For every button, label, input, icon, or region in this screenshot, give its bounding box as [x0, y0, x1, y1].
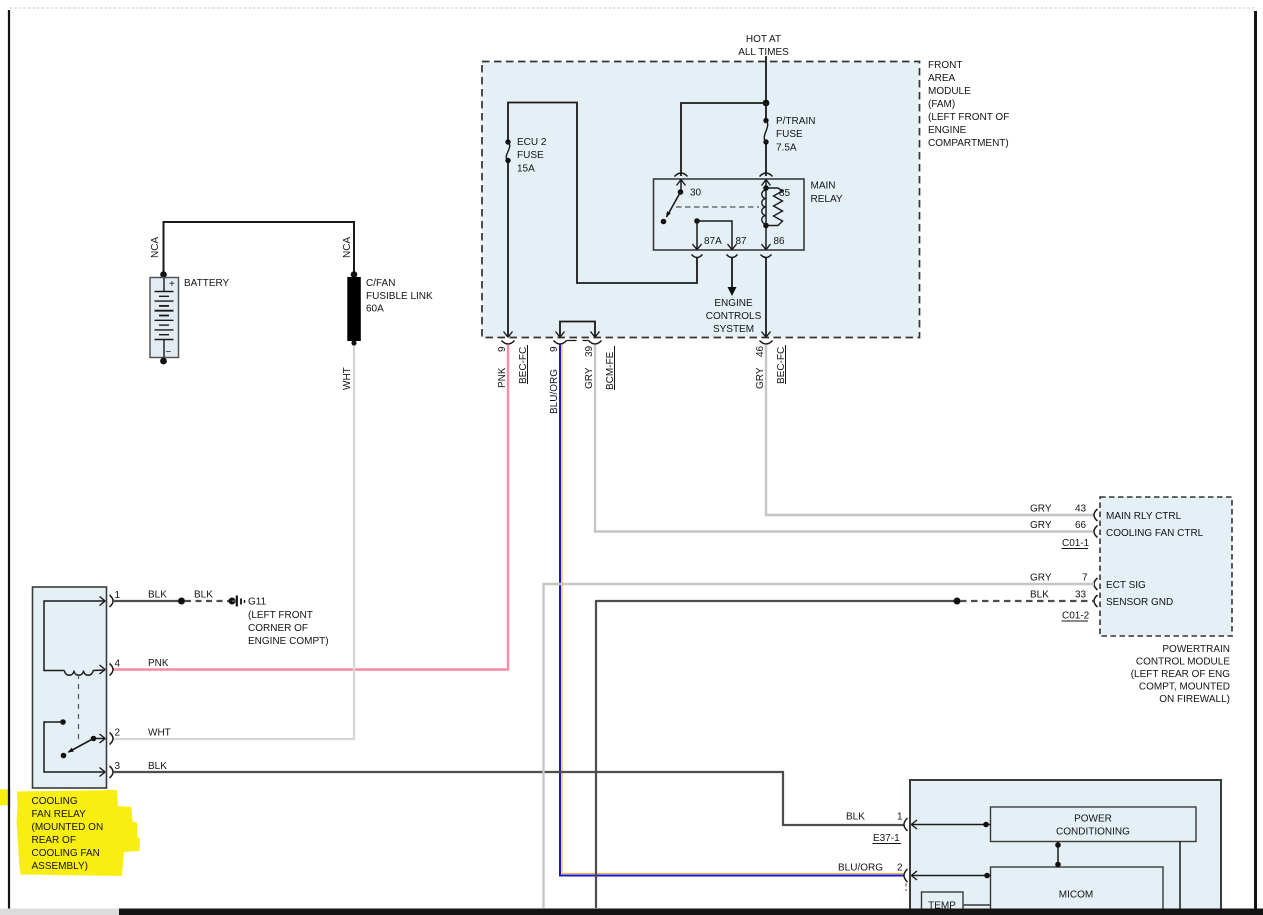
svg-text:7.5A: 7.5A [776, 143, 797, 154]
svg-text:GRY: GRY [1030, 573, 1052, 584]
wire branch to relay pin 30 [681, 103, 766, 176]
svg-text:SYSTEM: SYSTEM [713, 324, 754, 335]
svg-text:(MOUNTED ON: (MOUNTED ON [32, 822, 104, 833]
relay pin 4 connector arc [110, 664, 114, 676]
svg-text:HOT AT: HOT AT [746, 34, 781, 45]
fan module box [910, 780, 1221, 915]
svg-text:SENSOR GND: SENSOR GND [1106, 597, 1173, 608]
svg-text:FAN RELAY: FAN RELAY [32, 809, 87, 820]
svg-text:PNK: PNK [497, 367, 508, 388]
node 87A/87 common [694, 218, 700, 224]
wire WHT: fusible link to relay pin 2 [113, 346, 354, 740]
svg-text:4: 4 [115, 659, 121, 670]
svg-text:GRY: GRY [755, 367, 766, 389]
svg-text:FRONT: FRONT [928, 60, 962, 71]
svg-text:WHT: WHT [342, 367, 353, 390]
svg-text:30: 30 [690, 188, 702, 199]
svg-text:(FAM): (FAM) [928, 99, 955, 110]
fuse ECU 2 FUSE 15A [505, 137, 547, 175]
relay coil [65, 671, 94, 676]
svg-text:60A: 60A [366, 304, 384, 315]
PCM internal labels [1106, 511, 1204, 608]
switch arm [667, 192, 681, 217]
wire ECU2 fuse feed from relay 87A [508, 103, 697, 284]
connector arc pin 86 bottom [761, 255, 772, 258]
wire BLK relay pin3 to fan module pin 1 [113, 772, 904, 825]
wire hot feed into FAM [765, 56, 767, 103]
svg-text:CORNER OF: CORNER OF [248, 623, 308, 634]
svg-text:E37-1: E37-1 [873, 833, 900, 844]
svg-text:(LEFT FRONT OF: (LEFT FRONT OF [928, 112, 1009, 123]
svg-text:2: 2 [897, 863, 903, 874]
svg-text:BLU/ORG: BLU/ORG [838, 863, 883, 874]
pin 87A arrow down [693, 244, 702, 250]
svg-text:CONTROLS: CONTROLS [706, 311, 762, 322]
page top dotted rule [10, 7, 1256, 9]
svg-text:(LEFT REAR OF ENG: (LEFT REAR OF ENG [1131, 669, 1230, 680]
FAM pin 9 arrow (BLU) [556, 332, 565, 338]
pin 85 arrow up [762, 180, 771, 186]
svg-text:FUSE: FUSE [776, 129, 803, 140]
bottom left gray strip [0, 909, 119, 915]
wire labels at fan module [838, 812, 903, 874]
svg-text:GRY: GRY [1030, 520, 1052, 531]
svg-text:1: 1 [115, 590, 121, 601]
svg-text:15A: 15A [517, 164, 535, 175]
svg-text:CONDITIONING: CONDITIONING [1056, 827, 1130, 838]
wire pin 86 down to FAM pin 46 [765, 258, 767, 338]
pin 87 arrow down [728, 244, 737, 250]
connector names [1062, 538, 1090, 622]
relay pin arrows right [100, 597, 106, 606]
wire bridge to FAM pins 9/39 [560, 322, 595, 338]
MICOM box [991, 867, 1164, 915]
svg-text:85: 85 [779, 188, 791, 199]
node ENGINE CONTROLS SYSTEM [706, 298, 762, 335]
svg-text:COOLING FAN: COOLING FAN [32, 848, 100, 859]
svg-text:BLK: BLK [148, 590, 167, 601]
wire BLK SENSOR GND [596, 601, 955, 908]
svg-text:ENGINE COMPT): ENGINE COMPT) [248, 636, 329, 647]
FAM pin 39 arc [589, 341, 602, 345]
wire GRY: FAM pin 46 to PCM pin 43 [766, 345, 1094, 516]
wire pin 87 to engine controls [731, 258, 733, 291]
svg-text:MODULE: MODULE [928, 86, 971, 97]
relay pin2 contact [91, 736, 97, 742]
relay pin 1 connector arc [110, 595, 114, 607]
svg-text:WHT: WHT [148, 728, 171, 739]
connector arc pin 30 top [675, 173, 688, 177]
node HOT AT ALL TIMES [738, 34, 789, 58]
svg-text:ON FIREWALL): ON FIREWALL) [1159, 694, 1230, 705]
svg-text:FUSIBLE LINK: FUSIBLE LINK [366, 291, 433, 302]
POWER CONDITIONING box [991, 807, 1197, 842]
FAM pin 9b arc [554, 341, 567, 345]
svg-text:9: 9 [549, 346, 560, 352]
svg-text:87A: 87A [704, 236, 722, 247]
wire labels left relay [148, 590, 213, 773]
svg-text:BLK: BLK [194, 590, 213, 601]
svg-text:BLK: BLK [846, 812, 865, 823]
svg-text:P/TRAIN: P/TRAIN [776, 116, 815, 127]
wire PNK: FAM pin 9 to cooling fan relay pin 4 [113, 345, 508, 670]
svg-text:PNK: PNK [148, 658, 169, 669]
battery feed wire [164, 222, 355, 272]
svg-text:POWERTRAIN: POWERTRAIN [1162, 644, 1230, 655]
svg-text:POWER: POWER [1074, 814, 1112, 825]
svg-text:CONTROL MODULE: CONTROL MODULE [1136, 657, 1230, 668]
svg-text:C/FAN: C/FAN [366, 278, 395, 289]
wire GRY: FAM pin 39 to PCM pin 66 [595, 345, 1094, 532]
ground G11 [232, 600, 236, 602]
wire BLU/ORG: FAM pin 9 to fan module pin 2 [560, 345, 904, 876]
wire labels at PCM [1030, 504, 1088, 601]
yellow highlight [0, 789, 140, 876]
FAM pin 9 arrow (PNK) [504, 332, 513, 338]
svg-text:MAIN RLY CTRL: MAIN RLY CTRL [1106, 511, 1182, 522]
svg-text:G11: G11 [248, 597, 267, 608]
svg-text:ALL TIMES: ALL TIMES [738, 47, 789, 58]
connector arc pin 87A bottom [692, 255, 703, 258]
svg-text:RELAY: RELAY [811, 194, 843, 205]
svg-text:MAIN: MAIN [811, 181, 836, 192]
relay pin 2 connector arc [110, 733, 114, 745]
svg-text:−: − [166, 347, 172, 358]
svg-text:REAR OF: REAR OF [32, 835, 76, 846]
pin 86 arrow down [762, 244, 771, 250]
junction dot [763, 100, 770, 107]
wire ECU2 fuse to FAM pin 9 [507, 163, 509, 337]
relay switch arm [69, 739, 94, 753]
label pin 39 GRY rotated [584, 345, 616, 390]
svg-text:NCA: NCA [150, 237, 161, 258]
battery B1 [150, 271, 179, 364]
fan module pin 2 [912, 875, 991, 877]
svg-text:BATTERY: BATTERY [184, 278, 230, 289]
relay internal: pin1 wire [44, 601, 105, 671]
pin 30 arrow up [677, 180, 686, 186]
internal link POWER-MICOM [1057, 842, 1059, 868]
wire fuse to relay pin 85 [765, 144, 767, 176]
pin 30 stub and pivot dot [680, 180, 682, 190]
svg-text:ECU 2: ECU 2 [517, 137, 547, 148]
cooling fan relay label [32, 796, 104, 872]
svg-text:C01-2: C01-2 [1062, 611, 1090, 622]
svg-text:MICOM: MICOM [1059, 890, 1093, 901]
svg-text:ENGINE: ENGINE [714, 298, 753, 309]
relay actuation dashed link [78, 674, 80, 741]
resistor zigzag [766, 188, 783, 226]
switch contact dot [661, 219, 667, 225]
svg-text:87: 87 [736, 236, 748, 247]
svg-text:(LEFT FRONT: (LEFT FRONT [248, 610, 313, 621]
fuse P/TRAIN FUSE 7.5A [763, 116, 815, 154]
svg-text:7: 7 [1082, 573, 1088, 584]
svg-text:39: 39 [584, 345, 595, 357]
svg-text:GRY: GRY [584, 367, 595, 389]
label pin 9 PNK rotated [497, 345, 529, 388]
label pin 9 BLU/ORG rotated [549, 346, 560, 414]
connector arc pin 85 top [760, 173, 773, 177]
wire TEMP to MICOM [963, 904, 991, 906]
internal line right [1179, 842, 1181, 911]
svg-text:COOLING FAN CTRL: COOLING FAN CTRL [1106, 528, 1204, 539]
relay contact upper [60, 719, 66, 725]
wire BLK relay pin1 to ground [113, 600, 180, 602]
svg-text:BLU/ORG: BLU/ORG [549, 369, 560, 414]
FAM pin 39 arrow [591, 332, 600, 338]
svg-text:86: 86 [774, 236, 786, 247]
svg-text:+: + [169, 279, 175, 290]
connector dash stub [905, 884, 907, 892]
connector arc pin 87 bottom [727, 255, 738, 258]
FAM module label [928, 60, 1009, 149]
page left border [8, 10, 10, 909]
svg-text:ASSEMBLY): ASSEMBLY) [32, 861, 89, 872]
cooling fan relay box [33, 587, 107, 788]
svg-text:COOLING: COOLING [32, 796, 78, 807]
page left border over highlight [8, 788, 10, 807]
svg-text:AREA: AREA [928, 73, 956, 84]
coil bumps [762, 190, 766, 224]
svg-text:46: 46 [755, 345, 766, 357]
relay pin 3 connector arc [110, 766, 114, 778]
PCM box (dashed) [1100, 497, 1232, 636]
connector shell tails [567, 340, 589, 342]
PCM pin arcs [1094, 509, 1098, 521]
bottom black bar [119, 909, 1263, 915]
FAM pin 46 arc [760, 341, 773, 345]
wire BLU/ORG orange stripe [562, 345, 904, 874]
svg-text:ENGINE: ENGINE [928, 125, 967, 136]
svg-text:66: 66 [1075, 520, 1087, 531]
wire hot feed to P/TRAIN fuse [765, 103, 767, 118]
page right border [1254, 11, 1257, 909]
label pin 46 GRY rotated [755, 345, 787, 389]
svg-text:COMPT, MOUNTED: COMPT, MOUNTED [1139, 682, 1230, 693]
TEMP box [922, 892, 964, 915]
fan module pin 1 [912, 824, 991, 826]
relay coil wire 85-86 [765, 180, 767, 250]
relay U1 MAIN RELAY box [654, 179, 805, 250]
svg-text:BLK: BLK [1030, 590, 1049, 601]
svg-text:FUSE: FUSE [517, 150, 544, 161]
svg-text:GRY: GRY [1030, 504, 1052, 515]
svg-text:2: 2 [115, 728, 121, 739]
FAM pin 46 arrow [762, 332, 771, 338]
svg-text:BLK: BLK [148, 761, 167, 772]
relay actuation dashed link [676, 206, 759, 208]
pin labels [690, 188, 791, 248]
svg-text:1: 1 [897, 812, 903, 823]
svg-text:C01-1: C01-1 [1062, 538, 1090, 549]
ground label [248, 597, 329, 648]
svg-text:NCA: NCA [342, 237, 353, 258]
svg-text:3: 3 [115, 761, 121, 772]
wire GRY ECT SIG [544, 584, 1095, 908]
svg-text:33: 33 [1075, 590, 1087, 601]
fusible link C/FAN 60A [348, 271, 433, 345]
svg-text:COMPARTMENT): COMPARTMENT) [928, 138, 1009, 149]
FAM module box (FRONT AREA MODULE) [482, 62, 920, 338]
pin numbers [115, 590, 121, 772]
FAM pin 9 arc [502, 341, 515, 345]
svg-text:ECT SIG: ECT SIG [1106, 580, 1146, 591]
relay label [811, 181, 843, 206]
svg-text:43: 43 [1075, 504, 1087, 515]
svg-text:9: 9 [497, 346, 508, 352]
PCM label [1131, 644, 1231, 705]
